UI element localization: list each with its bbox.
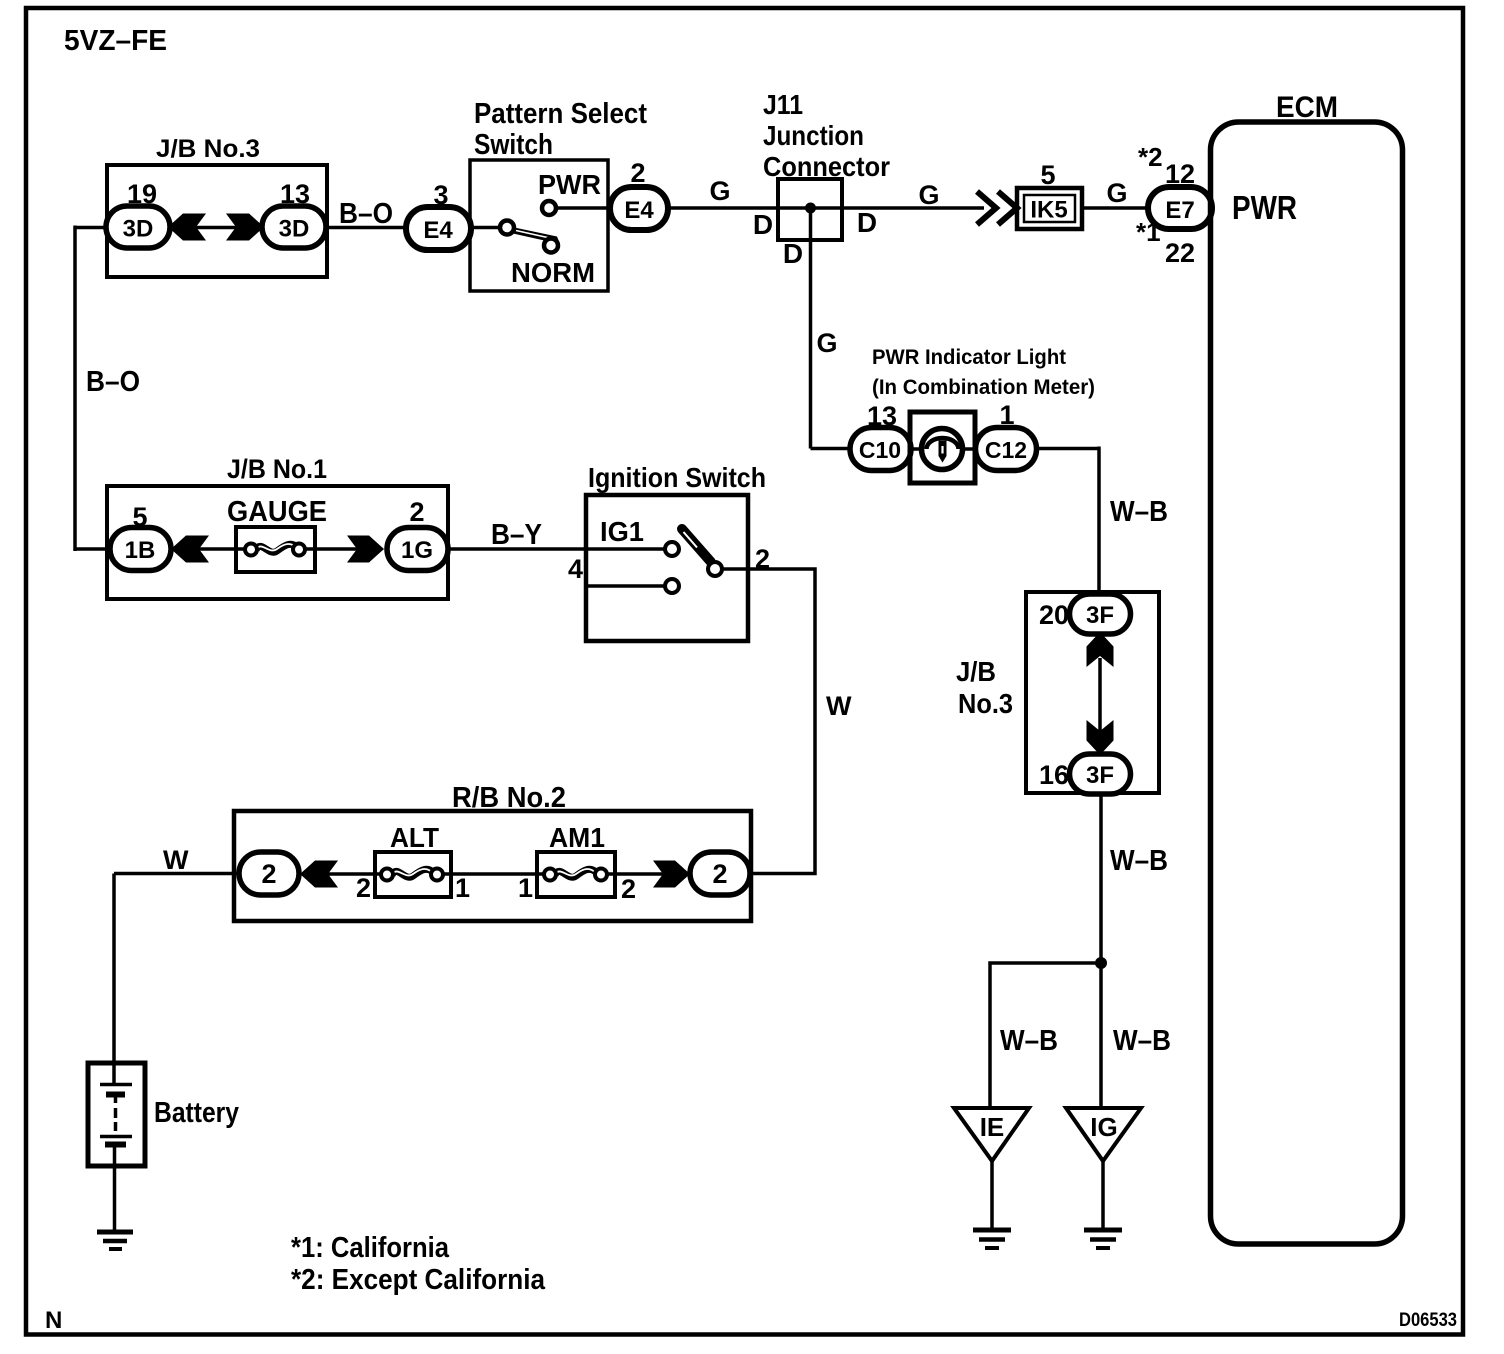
fuse AM1: [537, 852, 615, 897]
svg-text:J11: J11: [763, 89, 803, 120]
ECM box: [1211, 122, 1403, 1244]
wire W-B below 3F pin16: [1099, 792, 1103, 963]
svg-text:E4: E4: [423, 217, 453, 244]
svg-text:Pattern Select: Pattern Select: [474, 98, 647, 130]
svg-text:W–B: W–B: [1110, 496, 1168, 528]
wire arrow to ALT fuse: [324, 872, 382, 876]
svg-text:B–O: B–O: [339, 198, 393, 230]
svg-text:AM1: AM1: [549, 822, 605, 853]
ignition switch box: [586, 495, 748, 641]
svg-text:E4: E4: [624, 197, 654, 224]
arrow left (J/B No.1): [171, 536, 209, 563]
arrow down (J/B No.3 bottom): [1087, 720, 1114, 755]
wire AM1 to arrow: [605, 872, 665, 876]
svg-text:3F: 3F: [1086, 602, 1114, 629]
svg-text:C12: C12: [985, 437, 1027, 463]
svg-text:PWR: PWR: [538, 169, 601, 200]
svg-text:*1: California: *1: California: [291, 1232, 450, 1264]
svg-text:(In Combination Meter): (In Combination Meter): [872, 376, 1095, 399]
J11 junction connector box: [778, 179, 842, 240]
svg-text:Battery: Battery: [154, 1097, 239, 1129]
svg-text:C10: C10: [859, 437, 901, 463]
arrow right (R/B No.2): [653, 861, 690, 888]
svg-text:16: 16: [1039, 760, 1069, 790]
svg-text:D06533: D06533: [1399, 1310, 1457, 1331]
svg-text:2: 2: [409, 497, 424, 527]
chevron connector marks: [977, 192, 1017, 225]
node junction dot: [1095, 957, 1107, 969]
wire G vertical from J11: [809, 209, 813, 449]
svg-text:IE: IE: [980, 1112, 1005, 1142]
connector 2 left: [239, 852, 299, 895]
relay block connector IK5: [1017, 188, 1082, 229]
junction block J/B No.1 box: [107, 486, 448, 599]
wire W left of R/B No.2: [114, 872, 241, 876]
Pattern Select Switch label: [474, 98, 647, 161]
wire C12 to corner: [1034, 447, 1099, 451]
wire GAUGE to arrow: [303, 547, 359, 551]
connector C10: [850, 428, 911, 471]
svg-text:G: G: [918, 180, 939, 210]
junction block J/B No.3 box: [107, 165, 327, 277]
svg-text:G: G: [1106, 178, 1127, 208]
svg-text:Switch: Switch: [474, 129, 553, 161]
switch NORM contact: [544, 239, 558, 253]
wire ALT to AM1: [441, 872, 545, 876]
ignition pin2 contact: [708, 562, 722, 576]
PWR Indicator Light label: [872, 346, 1095, 399]
svg-text:W–B: W–B: [1000, 1025, 1058, 1057]
connector 3F pin 20: [1070, 594, 1131, 634]
arrow left (J/B No.3): [168, 214, 206, 241]
svg-text:2: 2: [755, 544, 770, 574]
wire 1B arrow to GAUGE: [192, 547, 246, 551]
svg-text:22: 22: [1165, 238, 1195, 268]
svg-text:Junction: Junction: [763, 120, 864, 151]
connector 1B pin 5: [110, 528, 171, 571]
connector 3F pin 16: [1070, 754, 1131, 794]
svg-text:2: 2: [356, 873, 371, 903]
svg-text:1: 1: [455, 873, 470, 903]
connector 2 right: [690, 852, 750, 895]
svg-text:D: D: [783, 238, 803, 269]
svg-text:J/B No.3: J/B No.3: [156, 135, 260, 163]
svg-text:E7: E7: [1165, 197, 1194, 224]
svg-text:PWR: PWR: [1232, 189, 1297, 226]
svg-text:20: 20: [1039, 600, 1069, 630]
ignition pin4 contact: [665, 579, 679, 593]
svg-text:1B: 1B: [125, 537, 156, 564]
wire B-Y 1G to ignition switch: [445, 547, 588, 551]
wire IG triangle to ground: [1101, 1159, 1105, 1230]
wire G IK5 to E7: [1082, 206, 1150, 210]
wire IG1 contact stub: [586, 547, 666, 551]
svg-text:5: 5: [1040, 160, 1055, 190]
svg-text:J/B No.1: J/B No.1: [227, 454, 327, 484]
ground symbol battery: [97, 1232, 133, 1249]
fuse GAUGE: [236, 527, 315, 572]
svg-text:4: 4: [568, 554, 583, 584]
svg-text:N: N: [45, 1307, 62, 1334]
switch lever: [512, 227, 560, 244]
svg-text:G: G: [709, 176, 730, 206]
svg-text:Ignition Switch: Ignition Switch: [588, 462, 766, 493]
arrow up (J/B No.3 bottom): [1087, 632, 1114, 667]
wire E4 to switch common: [470, 226, 501, 230]
svg-text:D: D: [753, 209, 773, 240]
svg-text:GAUGE: GAUGE: [227, 496, 327, 528]
ignition IG1 contact: [665, 542, 679, 556]
ground triangle IG: [1066, 1108, 1141, 1161]
connector 1G pin 2: [387, 528, 448, 571]
pattern select switch box: [470, 160, 608, 291]
arrow right (J/B No.3): [226, 214, 264, 241]
svg-text:W: W: [163, 845, 189, 875]
svg-text:2: 2: [621, 874, 636, 904]
junction block J/B No.3 bottom box: [1026, 592, 1159, 793]
svg-text:W: W: [826, 691, 852, 721]
PWR indicator lamp: [910, 412, 975, 483]
svg-text:*1: *1: [1136, 217, 1161, 247]
junction block J/B No.3 bottom label: [956, 656, 1013, 719]
switch common contact: [500, 221, 514, 235]
connector E7: [1148, 187, 1212, 229]
wire IE triangle to ground: [990, 1159, 994, 1230]
svg-text:B–Y: B–Y: [491, 519, 542, 551]
relay block R/B No.2 box: [234, 811, 751, 921]
svg-text:IG1: IG1: [600, 516, 644, 547]
fuse ALT: [375, 852, 451, 897]
svg-text:*2: Except California: *2: Except California: [291, 1264, 546, 1296]
svg-text:IK5: IK5: [1030, 197, 1067, 224]
svg-text:2: 2: [630, 158, 645, 188]
svg-text:No.3: No.3: [958, 688, 1013, 719]
svg-text:*2: *2: [1138, 142, 1163, 172]
svg-text:D: D: [857, 207, 877, 238]
ground symbol IG: [1084, 1230, 1122, 1248]
wire branch to IE: [990, 963, 1101, 1108]
svg-text:W–B: W–B: [1113, 1025, 1171, 1057]
wire into 1B: [75, 547, 112, 551]
svg-text:3D: 3D: [279, 216, 310, 243]
arrow left (R/B No.2): [300, 861, 338, 888]
connector 3D pin 19: [106, 206, 170, 248]
svg-text:G: G: [816, 328, 837, 358]
arrow right (J/B No.1): [347, 536, 384, 563]
svg-text:ALT: ALT: [390, 822, 439, 853]
wire PWR contact to E4 pin2: [554, 206, 612, 210]
wire G from E4 pin2 through J11 to chevrons: [666, 206, 984, 210]
wire battery to ground: [113, 1144, 117, 1230]
wire W-B down to IG: [1099, 963, 1103, 1108]
svg-text:ECM: ECM: [1276, 91, 1338, 124]
ground triangle IE: [954, 1108, 1029, 1161]
wire G corner into C10: [811, 447, 853, 451]
ignition switch lever: [682, 529, 711, 562]
svg-text:W–B: W–B: [1110, 845, 1168, 877]
J11 Junction Connector label: [763, 89, 890, 182]
node dot in J11: [805, 203, 816, 214]
wire pin4 stub: [586, 584, 666, 588]
svg-text:B–O: B–O: [86, 366, 140, 398]
svg-text:1: 1: [518, 873, 533, 903]
battery: [88, 1063, 145, 1166]
svg-text:1G: 1G: [401, 537, 433, 564]
wire B-O 3D13 to E4: [324, 226, 408, 230]
svg-text:J/B: J/B: [956, 656, 996, 687]
svg-text:3F: 3F: [1086, 762, 1114, 789]
switch PWR contact: [542, 201, 556, 215]
connector C12: [976, 428, 1037, 471]
svg-text:IG: IG: [1090, 1112, 1117, 1142]
wire between J/B No.3 arrows: [194, 226, 240, 230]
svg-text:PWR Indicator Light: PWR Indicator Light: [872, 346, 1066, 369]
wire W-B down to 3F pin20: [1097, 447, 1101, 598]
connector E4 pin 3: [406, 207, 471, 250]
connector E4 pin 2: [610, 187, 668, 230]
wire between 3F arrows: [1098, 658, 1102, 731]
connector 3D pin 13: [262, 206, 326, 248]
wire W down to battery: [112, 874, 116, 1085]
svg-text:5VZ–FE: 5VZ–FE: [64, 25, 167, 57]
svg-text:NORM: NORM: [511, 257, 595, 288]
svg-text:2: 2: [712, 859, 727, 889]
svg-text:2: 2: [261, 859, 276, 889]
ground symbol IE: [973, 1230, 1011, 1248]
wire B-O vertical left: [73, 226, 77, 552]
svg-text:3D: 3D: [123, 216, 154, 243]
wire B-O from 3D pin19 to left vertical: [75, 226, 108, 230]
wire W from ignition pin2: [722, 569, 815, 874]
